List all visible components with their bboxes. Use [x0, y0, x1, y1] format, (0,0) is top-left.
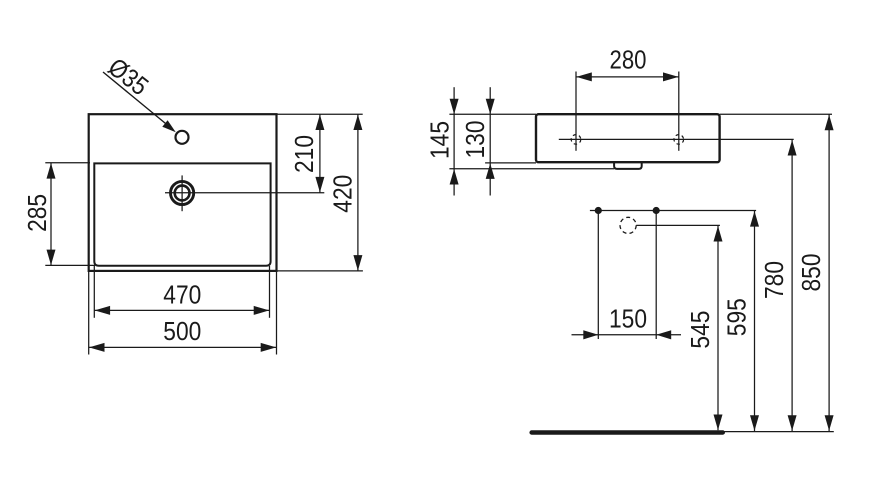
svg-text:470: 470 [163, 279, 201, 309]
svg-text:500: 500 [163, 316, 201, 346]
svg-text:780: 780 [759, 261, 789, 299]
svg-text:145: 145 [425, 121, 455, 159]
svg-text:850: 850 [796, 254, 826, 292]
svg-text:420: 420 [328, 175, 358, 213]
svg-text:595: 595 [722, 298, 752, 336]
svg-text:285: 285 [22, 194, 52, 232]
svg-text:210: 210 [289, 135, 319, 173]
svg-text:150: 150 [609, 303, 647, 333]
svg-text:130: 130 [460, 121, 490, 159]
svg-text:545: 545 [685, 311, 715, 349]
svg-text:280: 280 [610, 45, 647, 75]
